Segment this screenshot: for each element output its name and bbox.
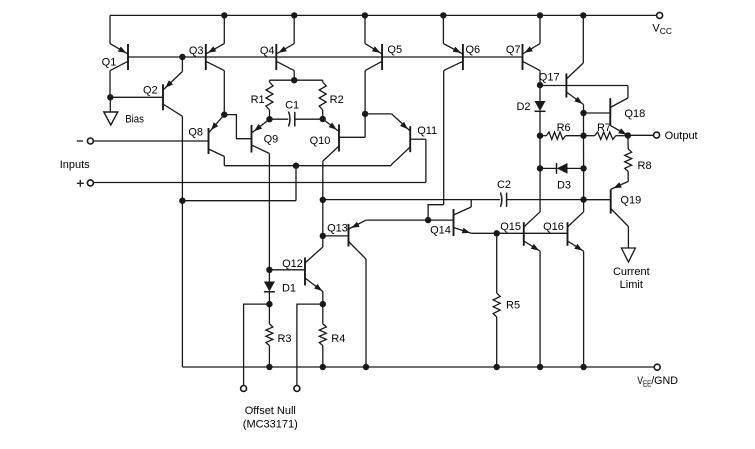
node Q5 emitter rail	[362, 12, 368, 18]
transistor Q4	[260, 15, 294, 80]
bias current source symbol	[104, 97, 145, 125]
node Q13 collector rail	[363, 364, 369, 370]
terminal VEE GND	[654, 364, 660, 370]
node D3 right	[580, 165, 586, 171]
svg-text:Q15: Q15	[500, 221, 521, 233]
transistor Q13	[323, 220, 366, 259]
transistor Q8	[188, 115, 224, 166]
svg-text:R5: R5	[506, 299, 520, 311]
svg-text:Q1: Q1	[102, 57, 117, 69]
wire junction down	[295, 166, 297, 201]
svg-text:Q9: Q9	[264, 134, 279, 146]
node Q12 collector Q13 base	[320, 233, 326, 239]
diode D2	[516, 85, 545, 136]
node Q7 emitter rail	[537, 12, 543, 18]
label Offset Null	[245, 405, 296, 417]
resistor R4	[319, 304, 345, 367]
terminal Output	[654, 132, 660, 138]
node Q17 emitter Q18 base	[580, 110, 586, 116]
svg-text:R8: R8	[638, 160, 652, 172]
capacitor C2	[497, 179, 511, 207]
node R5 rail	[494, 364, 500, 370]
svg-text:Q5: Q5	[387, 44, 402, 56]
transistor Q5	[365, 15, 402, 114]
wire Q10 collector to Q12	[322, 200, 324, 236]
svg-text:Q18: Q18	[624, 108, 645, 120]
terminal offset null right	[294, 386, 300, 392]
diode D1	[264, 270, 296, 304]
current limit symbol	[621, 248, 635, 262]
svg-text:Limit: Limit	[620, 279, 643, 291]
wire Q10 collector to C2	[323, 199, 500, 201]
node D3 left	[537, 165, 543, 171]
svg-text:R2: R2	[330, 94, 344, 106]
svg-text:Q17: Q17	[539, 72, 560, 84]
wire noninverting input line	[94, 182, 426, 184]
label plus sign	[77, 180, 84, 187]
node R6 R7 junction	[580, 133, 586, 139]
resistor R2	[294, 80, 344, 119]
transistor Q7	[506, 15, 540, 85]
svg-text:R6: R6	[557, 122, 571, 134]
transistor Q1	[102, 15, 128, 97]
node Q13 Q14 base junction	[425, 217, 431, 223]
wire D2 to D3	[539, 136, 541, 169]
transistor Q6	[443, 15, 480, 204]
svg-text:Q2: Q2	[143, 84, 158, 96]
svg-text:R1: R1	[251, 94, 265, 106]
wire to output terminal	[628, 134, 654, 136]
wire VCC top rail	[110, 14, 656, 16]
capacitor C1	[270, 100, 323, 127]
wire Q14 emitter to Q15 Q16 bases	[471, 232, 567, 234]
svg-text:Q3: Q3	[189, 45, 204, 57]
node B Q5 collector	[362, 111, 368, 117]
node Q4 emitter rail	[291, 12, 297, 18]
wire Q17 base Q18 collector line	[540, 85, 628, 87]
svg-text:C1: C1	[285, 100, 299, 112]
wire Q13 collector to rail	[365, 259, 367, 367]
node Q15 emitter rail	[537, 364, 543, 370]
node C2 Q19 base junction	[580, 196, 586, 202]
node R2 bottom	[320, 116, 326, 122]
svg-text:D3: D3	[557, 179, 571, 191]
terminal noninverting input	[87, 180, 93, 186]
wire link to left bus	[182, 200, 296, 202]
terminal offset null left	[241, 386, 247, 392]
wire VEE bottom rail	[182, 366, 654, 368]
svg-text:Q13: Q13	[327, 222, 348, 234]
transistor Q11	[365, 114, 437, 183]
node Q2 collector link	[179, 198, 185, 204]
wire R6 R7 node down to D3	[583, 136, 585, 169]
diode D3	[540, 163, 584, 191]
svg-text:Q6: Q6	[466, 44, 481, 56]
svg-text:Current: Current	[613, 266, 650, 278]
transistor Q17	[539, 15, 584, 113]
node Q12 base D1	[266, 267, 272, 273]
label VEE GND	[637, 375, 678, 388]
transistor Q12	[269, 236, 322, 304]
node Q7 collector	[537, 82, 543, 88]
transistor Q14	[428, 200, 471, 237]
svg-text:Q14: Q14	[430, 225, 451, 237]
wire D3 right down to C2 node	[583, 168, 585, 199]
node R1 bottom	[266, 116, 272, 122]
node R4 rail	[320, 364, 326, 370]
svg-text:R7: R7	[597, 122, 611, 134]
svg-text:Bias: Bias	[125, 113, 144, 125]
wire Q2 collector down left bus	[181, 116, 183, 200]
wire C2 to Q19 base	[507, 199, 611, 201]
wire Q8 Q11 collector line	[224, 165, 391, 167]
svg-text:D1: D1	[282, 282, 296, 294]
svg-text:Q8: Q8	[188, 126, 203, 138]
node R1 R2 top	[291, 77, 297, 83]
svg-text:(MC33171): (MC33171)	[243, 419, 298, 431]
svg-text:Q11: Q11	[417, 125, 437, 137]
wire inverting input to Q8 base	[94, 140, 209, 142]
node bias junction	[107, 94, 113, 100]
resistor R5	[493, 233, 520, 367]
resistor R8	[625, 136, 652, 182]
wire offset null left	[244, 304, 270, 385]
label MC33171	[243, 419, 298, 431]
svg-text:Q7: Q7	[506, 44, 521, 56]
transistor Q10	[310, 114, 365, 200]
transistor Q18	[584, 86, 646, 136]
node collector line junction	[293, 163, 299, 169]
node Q12 emitter R4 offset	[320, 301, 326, 307]
wire Q9 collector down	[268, 154, 270, 270]
node R3 rail	[266, 364, 272, 370]
wire node A to Q9 base	[224, 115, 251, 139]
node Q10 collector	[320, 197, 326, 203]
wire offset null right	[297, 304, 323, 385]
svg-text:Q19: Q19	[620, 194, 641, 206]
svg-text:C2: C2	[497, 179, 511, 191]
node R5 top	[494, 230, 500, 236]
label minus sign	[77, 140, 83, 142]
svg-text:D2: D2	[516, 101, 530, 113]
resistor R3	[266, 304, 292, 367]
node D1 R3 offset	[266, 301, 272, 307]
resistor R6	[540, 122, 584, 140]
wire common base rail	[128, 56, 523, 58]
transistor Q19	[584, 181, 642, 226]
node output junction	[625, 132, 631, 138]
wire Q1 collector to Q2 base	[110, 96, 163, 98]
wire Q13 emitter to Q14 base	[366, 219, 428, 221]
terminal inverting input	[87, 138, 93, 144]
terminal VCC	[657, 12, 663, 18]
svg-text:R3: R3	[277, 333, 291, 345]
transistor Q3	[189, 15, 224, 114]
transistor Q2	[143, 57, 182, 116]
svg-text:Q16: Q16	[543, 221, 564, 233]
label Output	[665, 130, 698, 142]
node base rail junction	[179, 54, 185, 60]
wire left bus to VEE rail	[181, 201, 183, 367]
node Q3 emitter rail	[221, 12, 227, 18]
svg-text:Output: Output	[665, 130, 698, 142]
svg-text:Q10: Q10	[310, 135, 331, 147]
svg-text:R4: R4	[331, 333, 345, 345]
svg-text:Q4: Q4	[260, 45, 275, 57]
label Current Limit	[613, 266, 650, 291]
wire Q19 collector down	[627, 227, 629, 249]
transistor Q16	[543, 200, 583, 367]
node Q16 emitter rail	[580, 364, 586, 370]
label Inputs	[60, 159, 90, 171]
node Q6 emitter rail	[440, 12, 446, 18]
node A Q3 collector	[221, 111, 227, 117]
transistor Q9	[252, 119, 279, 153]
label VCC	[652, 22, 672, 36]
wire Q17 emitter to R6 R7	[583, 113, 585, 136]
resistor R7	[584, 122, 628, 140]
node Q17 collector rail	[580, 12, 586, 18]
wire Q6 collector jog to Q14 base	[428, 205, 444, 220]
svg-text:Offset Null: Offset Null	[245, 405, 296, 417]
resistor R1	[251, 80, 295, 119]
node D2 R6 junction	[537, 133, 543, 139]
svg-text:Inputs: Inputs	[60, 159, 90, 171]
svg-text:Q12: Q12	[282, 258, 303, 270]
transistor Q15	[500, 168, 540, 367]
